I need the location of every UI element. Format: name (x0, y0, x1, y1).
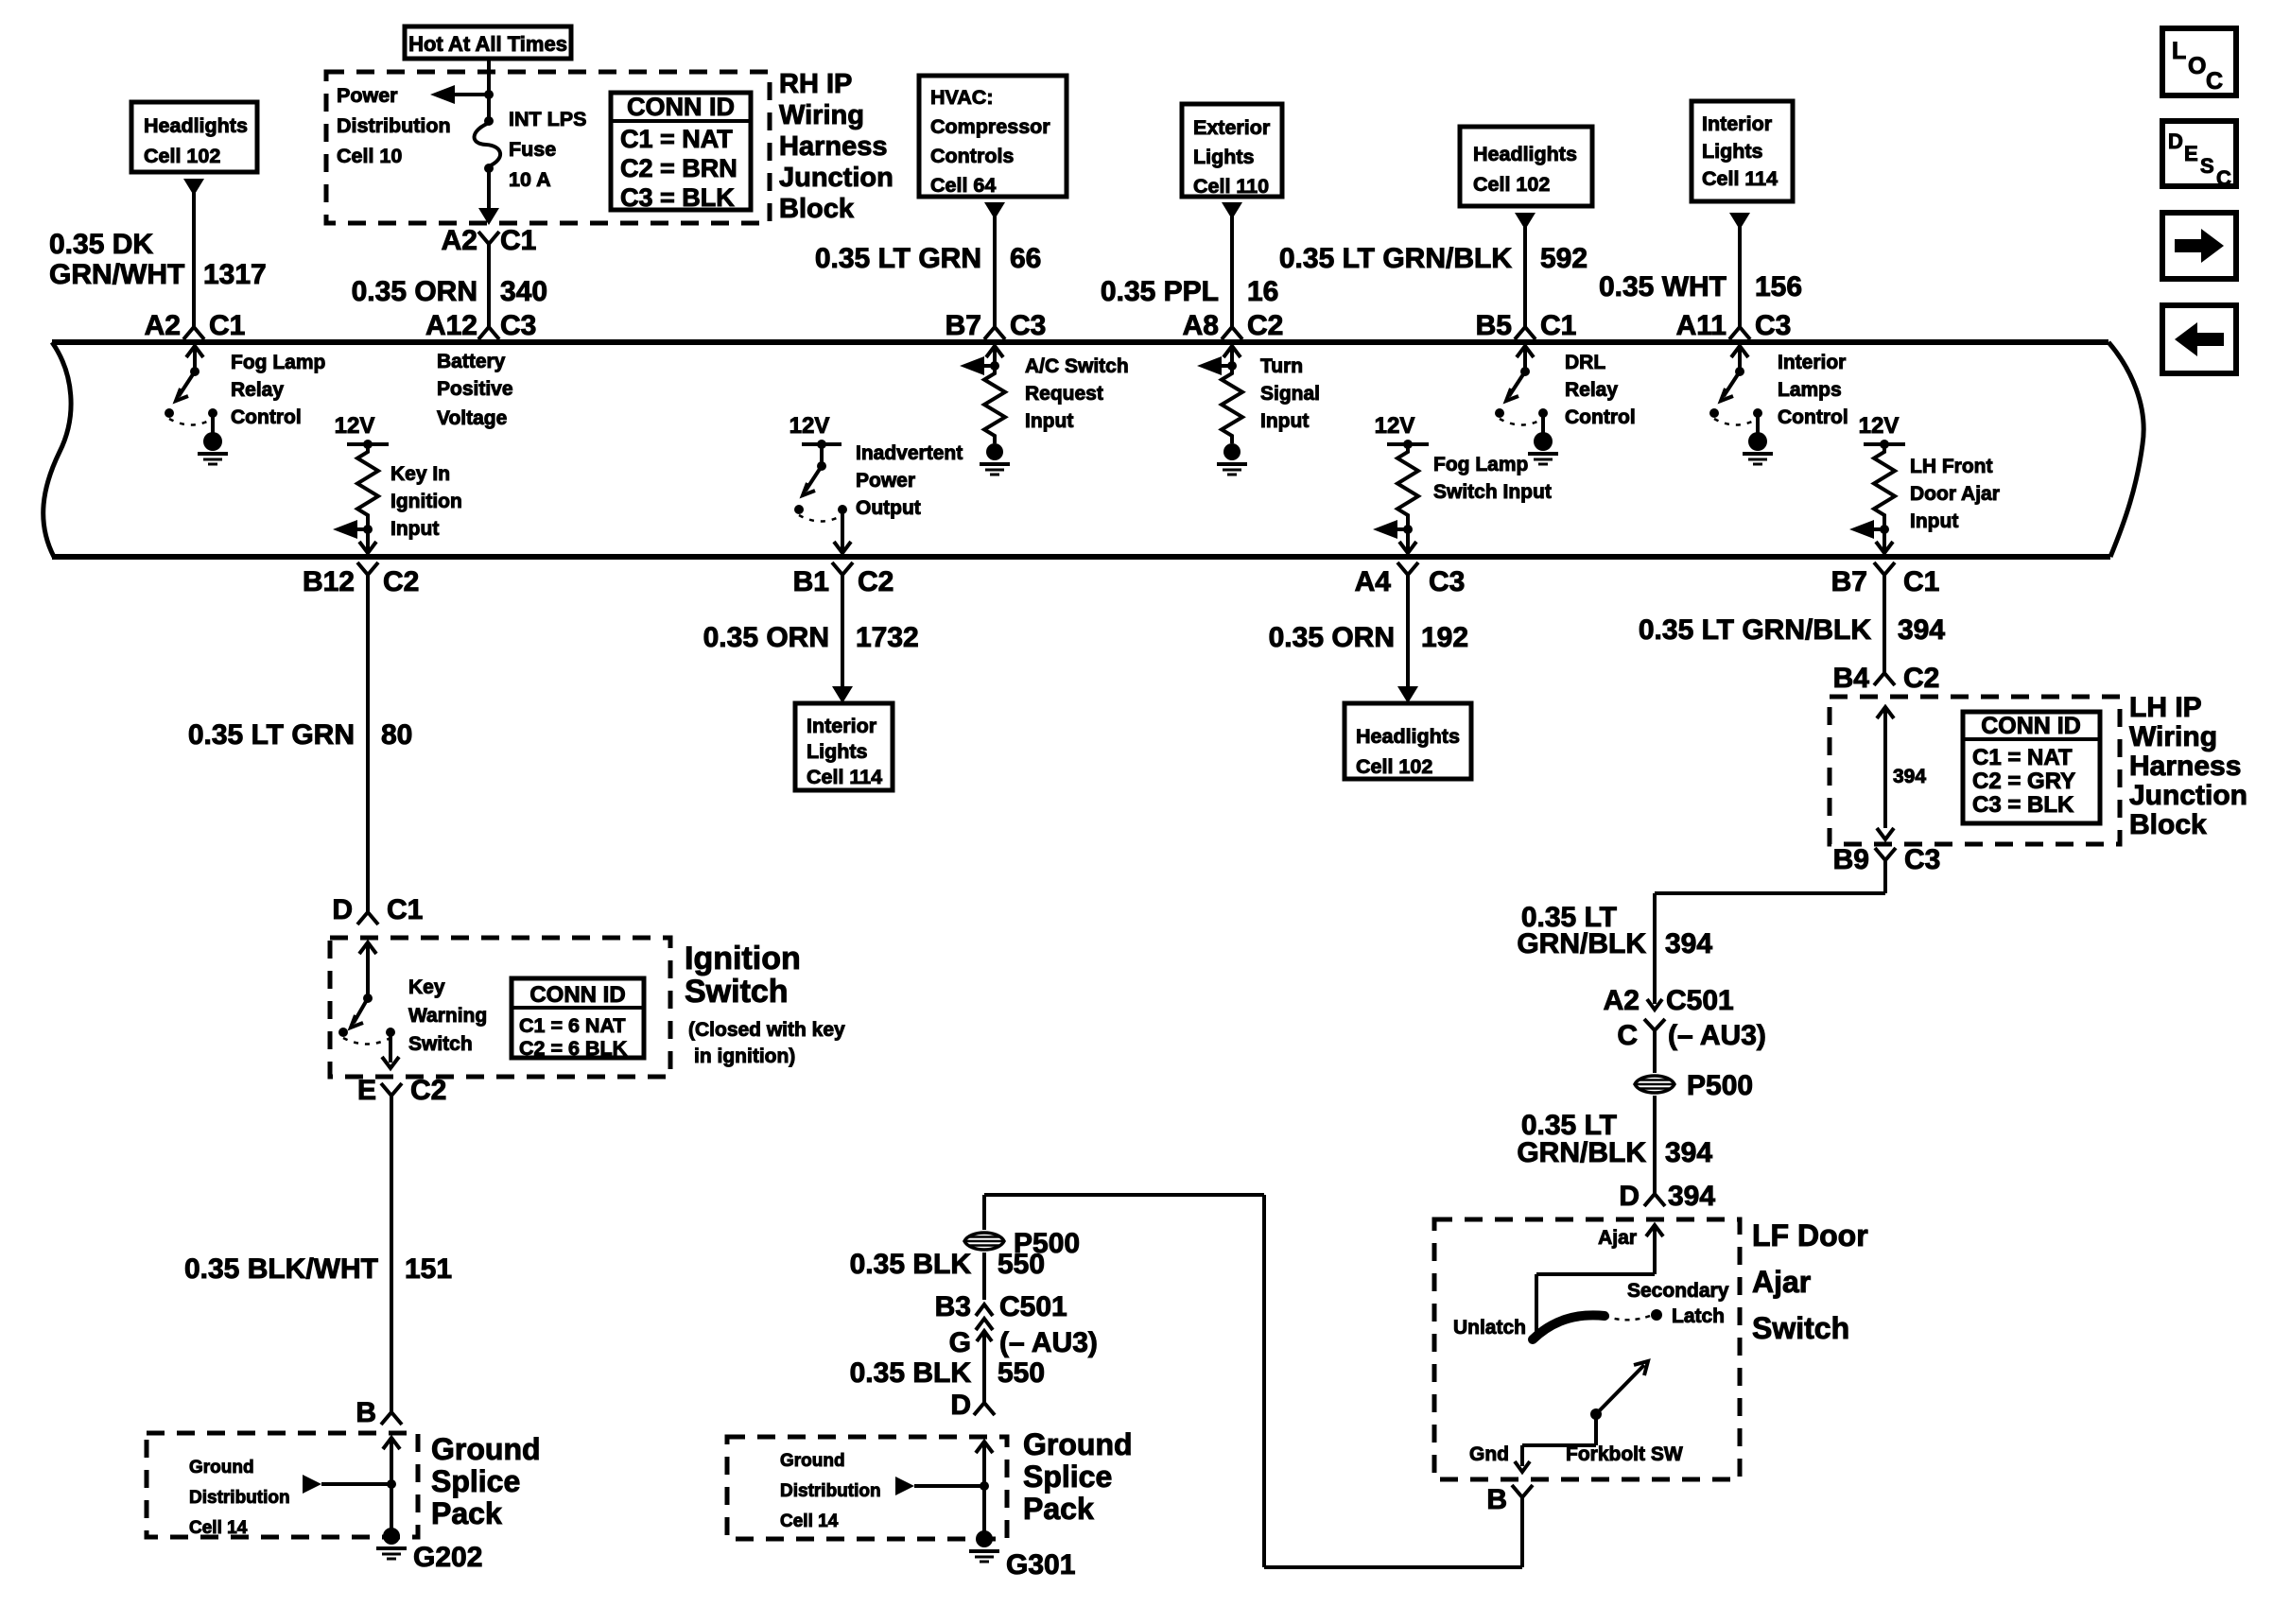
svg-text:80: 80 (381, 719, 412, 751)
svg-text:(Closed with key: (Closed with key (688, 1019, 845, 1041)
svg-text:Distribution: Distribution (337, 114, 451, 137)
svg-text:192: 192 (1421, 622, 1468, 653)
svg-text:LH IP: LH IP (2129, 692, 2202, 723)
svg-text:C2: C2 (858, 566, 894, 597)
svg-text:C1: C1 (500, 225, 536, 256)
svg-text:Interior: Interior (1778, 352, 1846, 373)
svg-text:HVAC:: HVAC: (930, 86, 993, 109)
svg-text:394: 394 (1668, 1181, 1715, 1212)
svg-text:Lamps: Lamps (1778, 379, 1842, 401)
svg-text:GRN/WHT: GRN/WHT (49, 259, 184, 290)
svg-text:C3: C3 (1755, 310, 1791, 341)
svg-text:C3 = BLK: C3 = BLK (1972, 792, 2074, 818)
svg-text:0.35 LT GRN/BLK: 0.35 LT GRN/BLK (1639, 614, 1871, 646)
svg-text:A12: A12 (425, 310, 477, 341)
svg-text:C3 = BLK: C3 = BLK (620, 183, 735, 212)
svg-text:A8: A8 (1183, 310, 1219, 341)
svg-text:Key: Key (408, 976, 445, 998)
svg-text:0.35 BLK/WHT: 0.35 BLK/WHT (184, 1253, 378, 1285)
svg-text:Headlights: Headlights (1356, 725, 1460, 748)
svg-text:Battery: Battery (437, 351, 506, 372)
svg-text:Lights: Lights (1193, 146, 1255, 168)
svg-text:C1: C1 (1540, 310, 1576, 341)
svg-text:Input: Input (1260, 410, 1309, 432)
svg-text:Cell 102: Cell 102 (1356, 755, 1432, 778)
svg-text:(– AU3): (– AU3) (999, 1327, 1098, 1358)
svg-text:550: 550 (998, 1357, 1045, 1389)
svg-text:in ignition): in ignition) (694, 1045, 795, 1067)
svg-text:Door Ajar: Door Ajar (1910, 483, 2000, 505)
svg-text:Switch Input: Switch Input (1433, 481, 1552, 503)
svg-text:S: S (2200, 154, 2214, 178)
svg-text:Compressor: Compressor (930, 115, 1050, 138)
svg-text:C2 = 6 BLK: C2 = 6 BLK (519, 1037, 628, 1060)
svg-text:Request: Request (1025, 383, 1103, 405)
svg-text:A4: A4 (1355, 566, 1392, 597)
svg-text:CONN ID: CONN ID (529, 982, 625, 1008)
svg-text:0.35 ORN: 0.35 ORN (1269, 622, 1395, 653)
svg-text:0.35 LT GRN: 0.35 LT GRN (188, 719, 355, 751)
svg-text:Input: Input (1910, 510, 1958, 532)
svg-text:G301: G301 (1006, 1549, 1075, 1581)
svg-text:Switch: Switch (408, 1033, 473, 1055)
svg-text:592: 592 (1540, 243, 1588, 274)
svg-text:C501: C501 (1666, 985, 1734, 1016)
svg-text:Input: Input (390, 518, 439, 540)
svg-text:Fog Lamp: Fog Lamp (1433, 454, 1528, 475)
svg-text:C2: C2 (383, 566, 419, 597)
svg-text:Block: Block (2129, 809, 2207, 840)
svg-text:Cell 102: Cell 102 (144, 145, 220, 167)
svg-text:E: E (2184, 142, 2198, 165)
svg-text:394: 394 (1665, 928, 1712, 959)
svg-text:C3: C3 (1904, 844, 1940, 875)
svg-text:O: O (2188, 53, 2206, 79)
svg-text:Ignition: Ignition (390, 491, 462, 512)
svg-text:Pack: Pack (1023, 1492, 1094, 1526)
svg-text:Relay: Relay (231, 379, 284, 401)
svg-text:Ground: Ground (1023, 1427, 1133, 1461)
svg-text:B9: B9 (1833, 844, 1869, 875)
svg-text:C: C (1617, 1020, 1638, 1051)
svg-text:C2: C2 (410, 1075, 446, 1106)
svg-text:B: B (356, 1397, 376, 1428)
svg-text:Junction: Junction (2129, 780, 2247, 811)
svg-text:C1 = NAT: C1 = NAT (1972, 745, 2073, 770)
svg-text:1732: 1732 (856, 622, 919, 653)
svg-text:394: 394 (1665, 1137, 1712, 1168)
svg-text:Exterior: Exterior (1193, 116, 1271, 139)
svg-text:D: D (332, 894, 353, 925)
svg-text:C1 = NAT: C1 = NAT (620, 125, 733, 153)
svg-text:LH Front: LH Front (1910, 456, 1992, 477)
svg-text:GRN/BLK: GRN/BLK (1517, 1137, 1646, 1168)
svg-text:Splice: Splice (431, 1464, 520, 1498)
svg-text:Cell 64: Cell 64 (930, 174, 996, 197)
svg-text:B5: B5 (1476, 310, 1512, 341)
svg-text:Cell 114: Cell 114 (807, 766, 882, 788)
svg-text:G202: G202 (413, 1542, 482, 1573)
svg-text:Ground: Ground (780, 1451, 845, 1471)
svg-text:Splice: Splice (1023, 1460, 1112, 1494)
svg-text:Block: Block (779, 194, 855, 224)
svg-text:B7: B7 (1831, 566, 1867, 597)
svg-text:Wiring: Wiring (779, 100, 864, 130)
svg-text:10 A: 10 A (509, 168, 551, 191)
svg-text:L: L (2172, 38, 2186, 64)
svg-text:Turn: Turn (1260, 355, 1303, 377)
svg-text:A2: A2 (442, 225, 477, 256)
svg-text:Harness: Harness (779, 131, 887, 162)
svg-text:E: E (357, 1075, 376, 1106)
svg-text:B12: B12 (303, 566, 355, 597)
svg-text:CONN ID: CONN ID (1981, 713, 2081, 739)
svg-text:C3: C3 (1429, 566, 1465, 597)
svg-text:C: C (2216, 166, 2231, 190)
svg-text:Secondary: Secondary (1627, 1280, 1729, 1302)
svg-text:394: 394 (1893, 766, 1926, 787)
svg-text:Signal: Signal (1260, 383, 1320, 405)
svg-text:340: 340 (500, 276, 547, 307)
svg-text:C2: C2 (1903, 663, 1939, 694)
svg-text:INT LPS: INT LPS (509, 108, 586, 130)
svg-text:12V: 12V (789, 413, 830, 439)
svg-text:16: 16 (1247, 276, 1278, 307)
svg-text:CONN ID: CONN ID (627, 93, 735, 121)
svg-text:Fuse: Fuse (509, 138, 556, 161)
svg-text:Junction: Junction (779, 163, 894, 193)
svg-text:A2: A2 (145, 310, 181, 341)
svg-text:Cell 10: Cell 10 (337, 145, 402, 167)
svg-text:Control: Control (1778, 406, 1848, 428)
svg-text:C2 = BRN: C2 = BRN (620, 154, 737, 182)
svg-text:0.35 DK: 0.35 DK (49, 229, 153, 260)
svg-text:A11: A11 (1676, 310, 1726, 341)
svg-text:Warning: Warning (408, 1005, 487, 1027)
svg-text:B1: B1 (793, 566, 829, 597)
svg-text:C2: C2 (1247, 310, 1283, 341)
svg-text:LF Door: LF Door (1752, 1218, 1868, 1253)
svg-text:0.35 ORN: 0.35 ORN (352, 276, 477, 307)
svg-text:B3: B3 (935, 1291, 971, 1322)
svg-text:C2 = GRY: C2 = GRY (1972, 769, 2075, 794)
svg-text:Inadvertent: Inadvertent (856, 442, 963, 464)
svg-text:Voltage: Voltage (437, 407, 507, 429)
svg-text:Headlights: Headlights (1473, 143, 1577, 165)
svg-text:Fog Lamp: Fog Lamp (231, 352, 325, 373)
svg-text:B: B (1486, 1484, 1507, 1515)
svg-text:Harness: Harness (2129, 751, 2241, 782)
svg-text:C1: C1 (1903, 566, 1939, 597)
svg-text:1317: 1317 (203, 259, 267, 290)
svg-text:0.35 LT GRN: 0.35 LT GRN (815, 243, 981, 274)
svg-text:(– AU3): (– AU3) (1668, 1020, 1766, 1051)
svg-text:0.35 ORN: 0.35 ORN (703, 622, 829, 653)
svg-text:C1: C1 (209, 310, 245, 341)
svg-text:DRL: DRL (1565, 352, 1605, 373)
svg-text:Ignition: Ignition (685, 941, 801, 976)
svg-text:Ajar: Ajar (1752, 1265, 1811, 1299)
svg-text:156: 156 (1755, 271, 1802, 302)
svg-text:Interior: Interior (807, 715, 877, 737)
svg-text:Output: Output (856, 497, 921, 519)
svg-text:12V: 12V (335, 413, 375, 439)
svg-text:Lights: Lights (807, 740, 868, 763)
svg-text:66: 66 (1010, 243, 1041, 274)
svg-text:Hot At All Times: Hot At All Times (408, 32, 567, 56)
svg-text:Relay: Relay (1565, 379, 1618, 401)
svg-text:B7: B7 (946, 310, 981, 341)
svg-text:Power: Power (337, 84, 398, 107)
svg-text:Cell 102: Cell 102 (1473, 173, 1550, 196)
svg-text:Input: Input (1025, 410, 1073, 432)
svg-text:Control: Control (1565, 406, 1636, 428)
svg-text:P500: P500 (1687, 1070, 1753, 1101)
svg-text:D: D (1619, 1181, 1640, 1212)
svg-text:12V: 12V (1375, 413, 1415, 439)
svg-text:B4: B4 (1833, 663, 1870, 694)
svg-text:Distribution: Distribution (780, 1481, 881, 1501)
svg-text:Unlatch: Unlatch (1453, 1317, 1526, 1339)
svg-text:GRN/BLK: GRN/BLK (1517, 928, 1646, 959)
svg-text:0.35 BLK: 0.35 BLK (850, 1357, 972, 1389)
svg-text:Ground: Ground (189, 1458, 254, 1477)
svg-text:D: D (950, 1390, 971, 1421)
svg-text:Switch: Switch (1752, 1311, 1849, 1345)
svg-text:0.35 LT GRN/BLK: 0.35 LT GRN/BLK (1279, 243, 1512, 274)
svg-text:Headlights: Headlights (144, 114, 248, 137)
svg-text:Interior: Interior (1702, 112, 1773, 135)
svg-text:151: 151 (405, 1253, 452, 1285)
svg-text:C501: C501 (999, 1291, 1067, 1322)
svg-text:Gnd: Gnd (1469, 1443, 1509, 1465)
svg-text:Distribution: Distribution (189, 1488, 290, 1508)
svg-text:C3: C3 (1010, 310, 1046, 341)
svg-text:Forkbolt SW: Forkbolt SW (1566, 1443, 1683, 1465)
svg-text:C1: C1 (387, 894, 423, 925)
svg-text:C3: C3 (500, 310, 536, 341)
svg-text:Cell 14: Cell 14 (780, 1512, 839, 1531)
svg-text:A/C Switch: A/C Switch (1025, 355, 1129, 377)
svg-text:C1 = 6 NAT: C1 = 6 NAT (519, 1014, 626, 1037)
svg-text:A2: A2 (1604, 985, 1640, 1016)
svg-text:Switch: Switch (685, 974, 789, 1010)
svg-text:Latch: Latch (1672, 1305, 1725, 1327)
svg-text:Power: Power (856, 470, 915, 492)
svg-text:G: G (949, 1327, 971, 1358)
svg-text:Key In: Key In (390, 463, 450, 485)
svg-text:394: 394 (1898, 614, 1945, 646)
svg-text:D: D (2168, 130, 2183, 153)
svg-text:Wiring: Wiring (2129, 721, 2217, 752)
svg-text:Ajar: Ajar (1598, 1227, 1637, 1249)
svg-text:0.35 PPL: 0.35 PPL (1101, 276, 1219, 307)
svg-text:12V: 12V (1859, 413, 1900, 439)
svg-text:RH IP: RH IP (779, 69, 852, 99)
svg-text:0.35 WHT: 0.35 WHT (1599, 271, 1726, 302)
svg-text:C: C (2206, 68, 2223, 95)
svg-text:Lights: Lights (1702, 140, 1763, 163)
svg-text:Cell 14: Cell 14 (189, 1518, 248, 1538)
svg-text:Positive: Positive (437, 378, 513, 400)
svg-text:Ground: Ground (431, 1432, 541, 1466)
svg-text:Cell 110: Cell 110 (1193, 175, 1269, 198)
svg-text:550: 550 (998, 1249, 1045, 1280)
svg-text:Cell 114: Cell 114 (1702, 167, 1778, 190)
svg-text:Pack: Pack (431, 1496, 502, 1530)
svg-text:Control: Control (231, 406, 302, 428)
svg-text:0.35 BLK: 0.35 BLK (850, 1249, 972, 1280)
svg-text:Controls: Controls (930, 145, 1014, 167)
